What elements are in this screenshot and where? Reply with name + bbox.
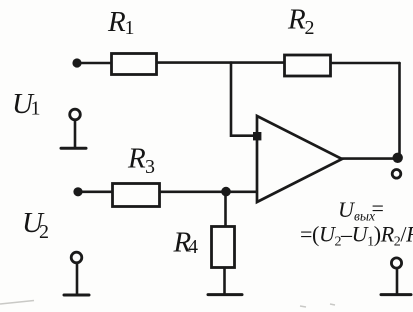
- svg-text:R: R: [287, 4, 306, 36]
- svg-text:=: =: [372, 196, 384, 221]
- svg-text:1: 1: [31, 98, 41, 120]
- svg-text:R: R: [107, 6, 126, 38]
- svg-text:=(U2–U1)R2/R1: =(U2–U1)R2/R1: [300, 222, 413, 250]
- svg-text:1: 1: [125, 17, 135, 39]
- svg-text:3: 3: [145, 156, 155, 178]
- svg-text:R: R: [127, 143, 146, 175]
- svg-text:4: 4: [188, 236, 198, 258]
- svg-text:2: 2: [305, 17, 315, 39]
- svg-text:2: 2: [39, 221, 49, 243]
